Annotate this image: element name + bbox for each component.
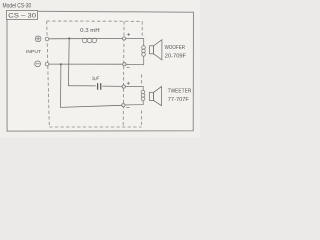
wire capacitor to tweeter plus terminal	[102, 85, 122, 87]
inductor L1 0.3mH	[82, 38, 96, 43]
input minus symbol	[35, 61, 41, 67]
woofer voice coil with lead corners	[127, 39, 145, 65]
model label box CS-30	[6, 11, 37, 20]
wire minus rail	[49, 63, 123, 65]
svg-text:20-709F: 20-709F	[165, 53, 187, 59]
tweeter minus terminal	[122, 104, 125, 107]
wire V2 vertical from minus rail to tweeter minus	[61, 64, 122, 107]
wire V1 vertical from + rail to capacitor branch	[68, 38, 96, 86]
woofer plus polarity label	[127, 33, 130, 36]
dashed right edge lower segment	[141, 111, 143, 128]
junction node on + rail	[68, 37, 70, 39]
wire + rail	[49, 37, 123, 39]
woofer plus terminal	[123, 37, 126, 40]
junction node on minus rail	[60, 63, 62, 65]
svg-text:Model CS-30: Model CS-30	[3, 2, 32, 9]
woofer minus polarity label	[127, 66, 130, 68]
wires	[49, 38, 143, 107]
input minus terminal	[45, 62, 49, 66]
tweeter voice coil with lead corners	[127, 86, 145, 105]
dashed right edge mid segment	[140, 75, 142, 85]
wire tweeter plus lead	[125, 85, 143, 87]
dashed bottom edge	[49, 126, 141, 128]
tweeter plus terminal	[122, 85, 125, 88]
capacitor C1	[98, 83, 101, 90]
wire woofer minus lead	[126, 63, 129, 65]
outer border frame	[7, 11, 194, 131]
wire tweeter minus lead	[125, 104, 128, 106]
dashed top edge	[47, 20, 143, 22]
tweeter minus polarity label	[126, 106, 129, 108]
dashed right edge upper segment	[141, 21, 143, 37]
dashed inner vertical terminal line	[122, 21, 125, 127]
tweeter plus polarity label	[127, 82, 130, 85]
svg-text:77-707F: 77-707F	[168, 97, 190, 103]
svg-text:0.3 mH: 0.3 mH	[80, 28, 100, 34]
input plus terminal	[45, 37, 49, 41]
woofer minus terminal	[123, 63, 126, 66]
scan background	[0, 0, 200, 138]
svg-text:CS – 30: CS – 30	[8, 13, 36, 20]
input plus symbol	[35, 36, 41, 42]
svg-text:1µF: 1µF	[92, 75, 100, 80]
svg-text:WOOFER: WOOFER	[165, 45, 185, 51]
svg-text:TWEETER: TWEETER	[168, 89, 192, 95]
wire woofer plus lead	[126, 37, 143, 39]
svg-text:INPUT: INPUT	[26, 49, 41, 54]
dashed left edge	[47, 21, 50, 127]
woofer speaker icon	[150, 40, 162, 60]
tweeter speaker icon	[150, 86, 162, 105]
dashed enclosure box	[47, 21, 143, 127]
